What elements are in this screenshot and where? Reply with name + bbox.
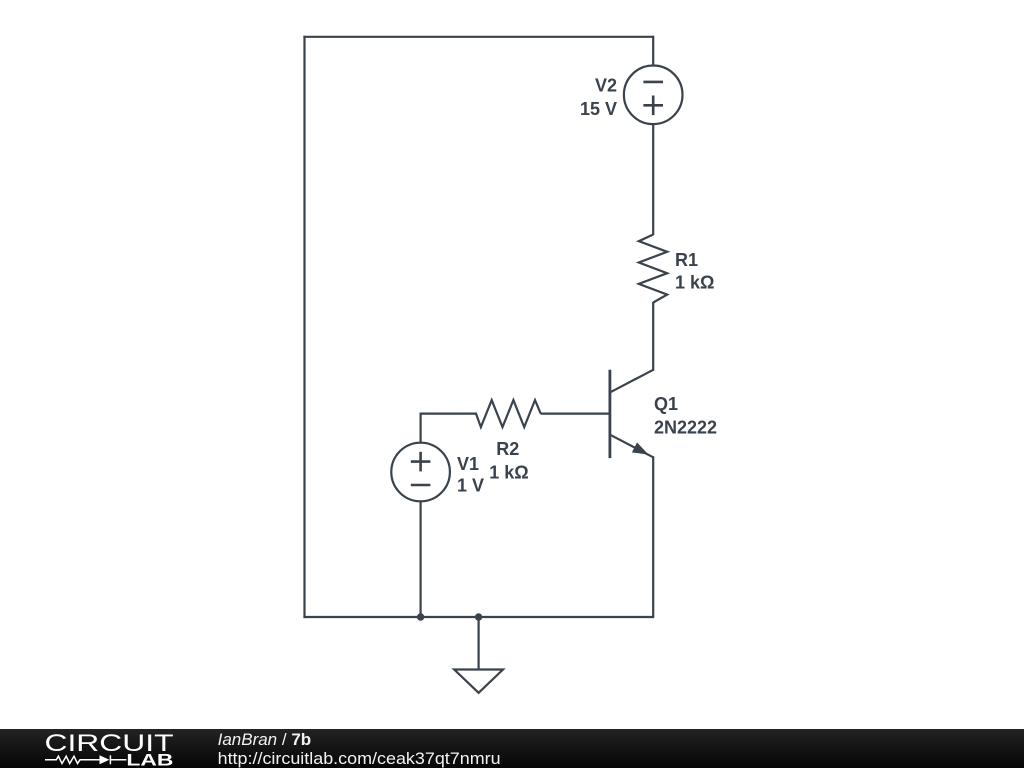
wire: V1 top stub — [420, 413, 422, 444]
wire: R1 bottom to Q1 collector — [652, 302, 654, 371]
CircuitLab logo: resistor-diode glyph — [45, 755, 126, 764]
footer black bar — [0, 729, 1024, 768]
svg-text:LAB: LAB — [126, 751, 173, 768]
R2 name/value labels: R2, 1 kOhm — [489, 439, 528, 483]
svg-text:Q1: Q1 — [654, 394, 678, 414]
svg-text:1 kΩ: 1 kΩ — [675, 273, 714, 293]
ground symbol (triangle) — [454, 670, 503, 693]
svg-text:V2: V2 — [595, 76, 617, 96]
resistor R2 (horizontal zigzag) — [476, 400, 541, 427]
svg-text:IanBran / 7b: IanBran / 7b — [218, 730, 312, 749]
voltage source V1 (1 V), plus on top — [391, 443, 450, 502]
Q1 emitter arrow — [632, 442, 649, 454]
wire: base wire from R2 to Q1 base — [541, 413, 609, 415]
Q1 collector diagonal — [610, 370, 653, 393]
svg-text:15 V: 15 V — [580, 99, 617, 119]
wire: top rail from left rail to V2 branch — [303, 36, 653, 38]
node junction dot: V1 to bottom rail — [417, 613, 424, 620]
svg-text:R2: R2 — [496, 439, 519, 459]
voltage source V2 (15 V), minus on top — [624, 66, 683, 125]
resistor R1 (vertical zigzag) — [639, 235, 667, 303]
wire: Q1 emitter down to bottom rail — [652, 456, 654, 618]
V1 name/value labels: V1, 1 V — [457, 454, 484, 496]
svg-text:V1: V1 — [457, 454, 479, 474]
wire: V1 bottom to ground net — [420, 501, 422, 617]
wire: V2 bottom to R1 top — [652, 124, 654, 235]
wire: ground stub — [478, 617, 480, 670]
R1 name/value labels: R1, 1 kOhm — [675, 250, 714, 293]
V2 name/value labels: V2, 15 V — [580, 76, 617, 120]
wire: bottom rail (ground net) — [303, 616, 653, 618]
svg-text:http://circuitlab.com/ceak37qt: http://circuitlab.com/ceak37qt7nmru — [218, 749, 501, 768]
Q1 base bar — [609, 370, 612, 458]
wire: R2 left to corner above V1 — [420, 413, 478, 415]
Q1 emitter diagonal — [610, 435, 653, 458]
node junction dot: ground tap on bottom rail — [475, 613, 482, 620]
wire: V2 top stub — [652, 36, 654, 66]
svg-text:1 V: 1 V — [457, 476, 484, 496]
Q1 name/value labels: Q1, 2N2222 — [654, 394, 717, 438]
svg-text:1 kΩ: 1 kΩ — [489, 463, 528, 483]
svg-text:2N2222: 2N2222 — [654, 418, 717, 438]
svg-text:R1: R1 — [675, 250, 698, 270]
transistor Q1 (NPN 2N2222) — [610, 370, 653, 458]
wire: left rail vertical — [303, 36, 305, 618]
